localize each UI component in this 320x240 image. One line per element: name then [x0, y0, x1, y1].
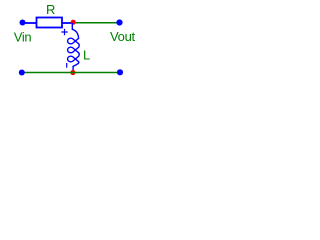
junction (red dot, top of inductor)	[71, 20, 76, 25]
inductor L polarity plus	[61, 29, 67, 35]
junction (red dot, bottom of inductor)	[70, 70, 75, 75]
node Vout (top-right terminal dot)	[116, 19, 122, 25]
wire (blue lead: resistor to junction)	[62, 22, 73, 24]
svg-text:Vin: Vin	[14, 30, 32, 45]
node Vin (top-left terminal dot)	[20, 20, 26, 26]
wire (green: junction to Vout node, top)	[73, 22, 120, 24]
wire (green bottom rail)	[22, 72, 120, 74]
inductor L (coil)	[68, 23, 80, 70]
node (bottom-right terminal dot)	[117, 69, 123, 75]
svg-text:L: L	[83, 48, 90, 63]
svg-text:R: R	[46, 2, 55, 17]
node (bottom-left terminal dot)	[19, 70, 25, 76]
svg-text:Vout: Vout	[110, 29, 136, 44]
inductor L polarity minus	[66, 63, 68, 68]
wire (blue lead: Vin node to resistor)	[22, 22, 37, 24]
resistor R (body)	[37, 18, 63, 28]
